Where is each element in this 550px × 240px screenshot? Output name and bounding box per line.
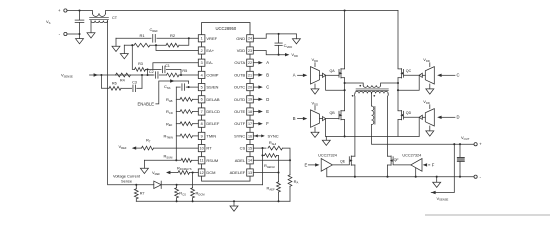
junction node AB primary <box>344 82 346 84</box>
ground CT secondary <box>87 33 95 38</box>
svg-text:D: D <box>266 97 269 102</box>
junction R3 top <box>131 44 133 46</box>
svg-text:QE: QE <box>340 159 346 163</box>
phase dot primary <box>359 85 361 87</box>
wire F input <box>429 164 430 166</box>
wire top rail Vs+ to bridge <box>67 11 93 14</box>
wire left bridge rail <box>344 11 346 69</box>
wire R2 up to VREF node <box>179 38 189 45</box>
wire QF source down <box>387 165 389 177</box>
svg-text:C2: C2 <box>149 70 154 74</box>
svg-text:OUTC: OUTC <box>234 85 245 90</box>
junction QE source <box>354 176 356 178</box>
svg-text:6: 6 <box>201 98 203 102</box>
arrow SYNC left <box>254 134 258 137</box>
svg-text:R4: R4 <box>120 79 125 83</box>
svg-text:R7: R7 <box>140 192 145 196</box>
wire C driver to QC gate <box>404 74 420 76</box>
wire CS row <box>136 184 154 186</box>
wire CS pin15 <box>253 147 266 149</box>
ground delay rail <box>140 168 148 173</box>
junction left bridge leg <box>344 9 346 11</box>
svg-text:A: A <box>293 73 296 78</box>
transistor Q3 QC <box>403 69 405 77</box>
svg-text:9: 9 <box>201 134 203 138</box>
junction RAEFHI left <box>261 154 263 156</box>
svg-text:16: 16 <box>248 134 252 138</box>
svg-text:17: 17 <box>248 122 252 126</box>
resistor RAEF <box>278 173 280 182</box>
ground VREF net <box>112 46 120 51</box>
svg-text:21: 21 <box>248 73 252 77</box>
page footer rule <box>425 214 550 216</box>
arrow to VREF <box>132 146 136 149</box>
wire VREF pin1 net <box>116 37 151 39</box>
wire CVDD bottom lead <box>278 46 280 55</box>
svg-text:R6: R6 <box>112 82 117 86</box>
svg-text:OUTF: OUTF <box>234 121 245 126</box>
transformer T1 secondary <box>355 91 372 93</box>
svg-text:8: 8 <box>201 122 203 126</box>
pin 19 OUTD <box>247 96 254 103</box>
buffer driver U4 C-driver <box>425 67 434 84</box>
svg-text:4: 4 <box>201 73 203 77</box>
arrow VSENSE feedback <box>431 191 435 194</box>
junction EA- node bottom <box>146 74 148 76</box>
wire output ground stem <box>436 177 438 183</box>
svg-text:ADELEF: ADELEF <box>230 170 246 175</box>
wire delay rail <box>175 87 177 160</box>
arrow VSENSE direction <box>94 73 98 76</box>
resistor R3 <box>135 68 146 72</box>
buffer driver U3 B-driver <box>311 110 320 127</box>
wire QB source to gnd tie <box>325 119 327 137</box>
capacitor CREF <box>152 34 154 42</box>
wire CS rail vertical <box>262 148 264 185</box>
svg-text:RSUM: RSUM <box>206 158 218 163</box>
junction DCM divider <box>192 171 194 173</box>
junction RCS bottom <box>176 200 178 202</box>
svg-text:DELCD: DELCD <box>206 109 220 114</box>
ground input <box>76 39 84 44</box>
svg-text:RT: RT <box>206 146 212 151</box>
wire IC gnd stem <box>295 34 297 39</box>
transistor Q4 QD <box>403 111 405 119</box>
svg-text:F: F <box>266 121 269 126</box>
ground U2 A-driver <box>311 89 319 94</box>
pin 12 DCM <box>198 169 205 176</box>
svg-text:2: 2 <box>201 49 203 53</box>
wire OUTE pin18 <box>253 111 258 113</box>
junction COUT top <box>459 143 461 145</box>
junction QC driver return <box>397 89 399 91</box>
junction input cap top <box>78 9 80 11</box>
svg-text:DCM: DCM <box>206 170 215 175</box>
svg-text:R2: R2 <box>170 33 176 38</box>
arrow B input <box>303 117 307 120</box>
inductor core bar <box>374 107 376 125</box>
resistor RTMIN <box>180 134 192 138</box>
junction Vs- node <box>78 33 80 35</box>
ground bottom rail <box>230 206 238 211</box>
arrow OUTE <box>258 110 262 113</box>
resistor RDCMHYS <box>178 171 190 175</box>
svg-text:E: E <box>266 109 269 114</box>
svg-text:12: 12 <box>200 171 204 175</box>
svg-text:GND: GND <box>236 36 245 41</box>
svg-text:OUTD: OUTD <box>234 97 245 102</box>
transformer CT primary winding <box>93 13 106 16</box>
wire ground stem bottom <box>233 201 235 206</box>
svg-text:+: + <box>58 8 61 13</box>
resistor RA <box>289 160 291 175</box>
svg-text:1: 1 <box>201 37 203 41</box>
svg-text:Sense: Sense <box>121 178 132 183</box>
svg-text:23: 23 <box>248 49 252 53</box>
pin 4 COMP <box>198 71 205 78</box>
wire LOUT to VOUT+ <box>372 125 475 145</box>
svg-text:QB: QB <box>330 111 336 115</box>
phase dot secondary centre <box>373 95 375 97</box>
svg-text:7: 7 <box>201 110 203 114</box>
buffer driver U2 A-driver <box>311 67 320 84</box>
wire pin8 row <box>176 123 180 125</box>
ground output <box>433 182 441 187</box>
svg-text:R1: R1 <box>139 33 145 38</box>
transformer CT core <box>90 17 109 19</box>
resistor R7 <box>135 185 137 189</box>
input + terminal <box>64 9 67 12</box>
svg-text:3: 3 <box>201 61 203 65</box>
junction EA+ tap <box>155 44 157 46</box>
svg-text:ENABLE: ENABLE <box>138 101 155 106</box>
resistor R5 <box>167 73 179 77</box>
resistor RDCM <box>192 173 194 188</box>
junction VSENSE node <box>100 74 102 76</box>
arrow OUTA <box>258 61 262 64</box>
pin 21 OUTB <box>247 71 254 78</box>
wire B input <box>298 118 304 120</box>
arrow OUTB <box>258 73 262 76</box>
phase dot secondary left <box>352 95 354 97</box>
junction VSENSE tap <box>453 143 455 145</box>
wire E input <box>308 164 315 166</box>
capacitor C1 <box>161 66 163 73</box>
wire CVDD top lead <box>278 34 280 43</box>
transformer CT secondary winding <box>91 21 108 23</box>
wire pin9 row <box>176 135 180 137</box>
svg-text:OUTA: OUTA <box>234 60 245 65</box>
wire divider row R1 R2 <box>124 44 134 46</box>
capacitor input bulk cap <box>75 19 84 21</box>
svg-text:F: F <box>432 162 435 167</box>
input - terminal <box>64 32 67 35</box>
transistor Q5 QE <box>348 157 350 165</box>
pin 11 RSUM <box>198 157 205 164</box>
resistor RT <box>142 146 154 150</box>
junction COMP node <box>180 74 182 76</box>
svg-text:C1: C1 <box>165 64 170 68</box>
op-amp U1 UCC28950 controller body <box>202 23 250 182</box>
buffer U6 UCC27324 E-driver <box>321 159 332 172</box>
buffer U7 UCC27324 F-driver <box>411 159 422 172</box>
svg-text:B: B <box>293 116 296 121</box>
inductor LOUT <box>371 93 373 106</box>
VOUT + terminal <box>474 143 477 146</box>
pin 10 RT <box>198 145 205 152</box>
wire D driver to QD gate <box>404 116 420 118</box>
svg-text:C: C <box>266 85 269 90</box>
diode D1 cathode bar <box>160 181 162 188</box>
ground U4 C-driver <box>426 89 434 94</box>
svg-text:CT: CT <box>112 16 118 20</box>
wire ADEL pin14 <box>253 159 290 161</box>
svg-text:18: 18 <box>248 110 252 114</box>
svg-text:CS: CS <box>240 146 246 151</box>
wire B driver to QB gate <box>326 118 339 120</box>
pin 3 EA- <box>198 59 205 66</box>
transistor Q1 QA <box>338 69 340 77</box>
ground divider <box>120 54 128 59</box>
arrow D input <box>437 116 441 119</box>
junction F-driver gnd <box>415 176 417 178</box>
capacitor CSS <box>181 84 183 91</box>
resistor R6 <box>109 86 121 90</box>
pin 6 DELAB <box>198 96 205 103</box>
arrow E input <box>315 163 319 166</box>
wire OUTC pin20 <box>253 86 258 88</box>
pin 5 SS/EN <box>198 84 205 91</box>
arrow OUTF <box>258 122 262 125</box>
wire pin6 row <box>176 98 180 100</box>
wire tie ground stem <box>325 136 327 140</box>
arrow F input <box>423 163 427 166</box>
transistor Q2 QB <box>338 111 340 119</box>
junction CS node <box>261 147 263 149</box>
ground IC <box>292 39 300 44</box>
svg-text:20: 20 <box>248 85 252 89</box>
svg-text:11: 11 <box>200 159 204 163</box>
wire OUTF pin17 <box>253 123 258 125</box>
wire C1 branch <box>148 68 162 70</box>
arrow ENABLE direction <box>170 79 174 82</box>
resistor R4 <box>116 73 131 77</box>
junction COUT bottom <box>459 176 461 178</box>
capacitor C2 <box>154 72 156 79</box>
svg-text:OUTE: OUTE <box>234 109 245 114</box>
wire input cap top lead <box>79 11 81 21</box>
wire QD driver return <box>418 117 420 136</box>
svg-text:SYNC: SYNC <box>234 133 245 138</box>
arrow OUTD <box>258 98 262 101</box>
wire divider ground stem <box>123 45 125 53</box>
wire R3 branch <box>132 45 134 69</box>
pin 22 OUTA <box>247 59 254 66</box>
wire pin7 row <box>176 111 180 113</box>
wire EA- pin3 <box>153 63 198 70</box>
wire RSUM row <box>144 159 181 161</box>
pin 8 DELEF <box>198 120 205 127</box>
svg-text:SYNC: SYNC <box>268 133 279 138</box>
wire RAHI to ADEL <box>283 148 291 160</box>
pin 13 ADELEF <box>247 169 254 176</box>
junction CVDD top <box>278 33 280 35</box>
arrow SYNC right <box>261 134 265 137</box>
capacitor C3 <box>132 85 134 92</box>
svg-text:TMIN: TMIN <box>206 133 216 138</box>
svg-text:22: 22 <box>248 61 252 65</box>
transformer T1 core <box>356 88 388 90</box>
pin 2 EA+ <box>198 47 205 54</box>
svg-text:OUTB: OUTB <box>234 72 245 77</box>
svg-text:10: 10 <box>200 146 204 150</box>
svg-text:UCC28950: UCC28950 <box>215 26 236 31</box>
svg-text:DELEF: DELEF <box>206 121 219 126</box>
wire EA+ pin2 <box>156 45 198 50</box>
pin 15 CS <box>247 145 254 152</box>
svg-text:24: 24 <box>248 37 252 41</box>
svg-text:COMP: COMP <box>206 72 218 77</box>
wire ADELEF pin13 <box>253 172 278 174</box>
svg-text:C3: C3 <box>132 80 137 84</box>
wire C input <box>441 74 455 76</box>
wire bottom ground rail <box>136 200 290 202</box>
transistor Q6 QF <box>392 157 394 165</box>
wire VDD pin23 <box>253 51 285 55</box>
junction R7 top <box>135 184 137 186</box>
junction RA top <box>289 159 291 161</box>
svg-text:ADEL: ADEL <box>235 158 246 163</box>
ground U3 B-driver <box>311 132 319 137</box>
svg-text:UCC27324: UCC27324 <box>402 154 421 158</box>
junction rail bottom <box>175 159 177 161</box>
wire rail ground stem <box>143 160 145 168</box>
wire EA- node link <box>147 69 149 75</box>
wire input cap bottom lead <box>79 22 81 34</box>
svg-text:UCC27324: UCC27324 <box>318 154 337 158</box>
svg-text:B: B <box>266 72 269 77</box>
junction RDCM bottom <box>192 200 194 202</box>
wire OUTA pin22 <box>253 62 258 64</box>
resistor R2 <box>166 43 179 47</box>
wire CT secondary left to ground <box>90 21 92 33</box>
pin 14 ADEL <box>247 157 254 164</box>
wire SS pin5 row <box>176 86 180 88</box>
resistor RCS <box>176 185 178 188</box>
wire OUTB pin21 <box>253 74 258 76</box>
svg-text:QA: QA <box>330 69 336 73</box>
junction QB source tie <box>344 135 346 137</box>
svg-text:15: 15 <box>248 146 252 150</box>
svg-text:VDD: VDD <box>237 48 246 53</box>
wire VREF ground stem <box>115 38 117 46</box>
wire Vs- to cap <box>67 33 80 35</box>
svg-text:C: C <box>457 73 460 78</box>
ground bridge tie <box>322 140 330 145</box>
junction RAEF bottom <box>277 200 279 202</box>
pin 7 DELCD <box>198 108 205 115</box>
svg-text:EA-: EA- <box>206 60 213 65</box>
wire bridge bottom tie <box>326 135 420 137</box>
wire right bridge rail <box>397 11 399 69</box>
svg-text:19: 19 <box>248 98 252 102</box>
svg-text:DELAB: DELAB <box>206 97 219 102</box>
diode D1 <box>154 181 161 188</box>
junction RAEF top <box>277 171 279 173</box>
svg-text:R5: R5 <box>182 69 187 73</box>
svg-text:E: E <box>305 162 308 167</box>
pin 18 OUTE <box>247 108 254 115</box>
svg-text:R3: R3 <box>138 62 143 66</box>
wire D input <box>441 116 455 118</box>
junction VREF/R2 <box>188 37 190 39</box>
svg-text:QF: QF <box>394 158 400 162</box>
wire output gnd rail <box>327 176 474 178</box>
svg-text:QC: QC <box>406 69 412 73</box>
svg-text:5: 5 <box>201 85 203 89</box>
wire E driver gnd <box>326 168 328 177</box>
buffer driver U5 D-driver <box>425 109 434 126</box>
wire OUTD pin19 <box>253 98 258 100</box>
wire F driver gnd <box>415 168 417 177</box>
wire SYNC pin16 <box>253 135 261 137</box>
arrow VDD <box>285 53 289 56</box>
svg-text:14: 14 <box>248 159 252 163</box>
resistor RAB <box>180 97 192 101</box>
resistor REF <box>180 122 192 126</box>
wire R6 C3 branch <box>101 75 109 88</box>
resistor RSUM <box>181 158 192 162</box>
svg-text:13: 13 <box>248 171 252 175</box>
resistor RAEFHI <box>265 154 277 158</box>
VOUT - terminal <box>474 175 477 178</box>
svg-text:SS/EN: SS/EN <box>206 85 218 90</box>
wire A input <box>298 74 304 76</box>
capacitor COUT <box>459 144 461 157</box>
wire GND pin24 <box>253 34 296 38</box>
ground U5 D-driver <box>426 131 434 136</box>
wire QE source down <box>354 165 356 177</box>
wire E driver to QE gate <box>332 164 349 166</box>
wire VSENSE row <box>90 74 153 76</box>
junction RCS top <box>176 184 178 186</box>
pin 24 GND <box>247 35 254 42</box>
svg-text:D: D <box>457 115 460 120</box>
svg-text:VREF: VREF <box>206 36 217 41</box>
svg-text:EA+: EA+ <box>206 48 214 53</box>
wire QA driver return <box>326 75 345 90</box>
arrow A input <box>303 74 307 77</box>
junction EA- node top <box>146 68 148 70</box>
pin 20 OUTC <box>247 84 254 91</box>
pin 16 SYNC <box>247 132 254 139</box>
svg-text:QD: QD <box>406 111 412 115</box>
resistor R1 <box>134 43 150 47</box>
junction output gnd <box>436 176 438 178</box>
wire VSENSE feedback <box>431 144 454 192</box>
junction QF source <box>386 176 388 178</box>
junction CVDD bottom <box>278 54 280 56</box>
wire A driver to QA gate <box>326 74 339 76</box>
wire COMP row C2 R5 <box>148 74 155 76</box>
junction QA driver return <box>344 89 346 91</box>
wire QC driver return <box>398 75 419 90</box>
pin 23 VDD <box>247 47 254 54</box>
junction ground tap <box>233 200 235 202</box>
junction enable/SS <box>188 86 190 88</box>
arrow OUTC <box>258 85 262 88</box>
pin 1 VREF <box>198 35 205 42</box>
